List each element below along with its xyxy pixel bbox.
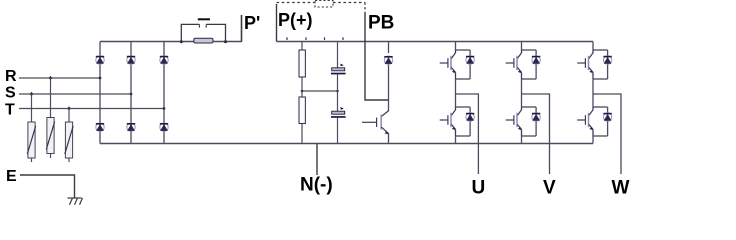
wire dashed link braking resistor to PB xyxy=(333,2,365,4)
wire V output xyxy=(522,94,550,174)
wire varistor tap from R xyxy=(50,76,52,118)
diode D7 (braking) xyxy=(384,56,392,64)
diode D5 lower col2 xyxy=(127,123,135,131)
transistor Q7 braking IGBT xyxy=(362,111,389,135)
wire resistor column xyxy=(301,42,303,144)
varistor Z3 xyxy=(65,122,73,158)
capacitor C1 xyxy=(331,64,346,75)
wire P' lead xyxy=(241,15,243,42)
wire leg1 midpoint vertical xyxy=(455,79,457,107)
node T tap dot xyxy=(68,107,71,110)
wire P(+) lead xyxy=(276,4,278,42)
wire P(+) top bus left section xyxy=(100,41,194,43)
svg-text:T: T xyxy=(5,102,15,119)
svg-text:R: R xyxy=(5,68,17,85)
svg-text:E: E xyxy=(6,168,17,185)
wire chopper column upper xyxy=(388,42,390,112)
wire W output xyxy=(593,94,621,174)
transistor Q2 bottom with diode xyxy=(440,107,475,136)
wire P(+) top bus main section xyxy=(277,41,594,43)
svg-text:U: U xyxy=(472,178,486,199)
transistor Q5 top with diode xyxy=(577,50,612,79)
node bridge col1/R xyxy=(99,77,102,80)
wire bridge column 3 xyxy=(163,42,165,144)
svg-text:PB: PB xyxy=(368,13,394,34)
wire midpoint link xyxy=(302,90,338,92)
node bridge col3/T xyxy=(163,107,166,110)
wire U output xyxy=(456,94,479,174)
node S tap dot xyxy=(30,93,33,96)
wire leg1 collector stub xyxy=(455,42,457,51)
wire R phase line xyxy=(19,77,100,79)
wire varistor tap from S xyxy=(31,92,33,122)
dashes along bus under P(+) box xyxy=(287,37,343,40)
node R tap dot xyxy=(49,77,52,80)
wire contactor right post xyxy=(206,24,225,42)
diode D6 lower col3 xyxy=(160,123,168,131)
svg-text:W: W xyxy=(612,178,630,199)
wire dashed link P(+) to braking resistor xyxy=(277,2,316,4)
svg-text:S: S xyxy=(5,85,16,102)
node midpoint left xyxy=(301,90,304,93)
resistor R0 (precharge) xyxy=(194,38,213,43)
diode D1 upper col1 xyxy=(96,56,104,64)
wire contactor left post xyxy=(181,24,199,42)
wire leg2 emitter stub xyxy=(521,136,523,144)
svg-text:P(+): P(+) xyxy=(278,10,313,30)
wire top bus resistor-to-P' section xyxy=(213,41,242,43)
diode D3 upper col3 xyxy=(160,56,168,64)
node midpoint right xyxy=(336,90,339,93)
wire leg3 collector stub xyxy=(592,42,594,51)
resistor external braking (dashed outline) xyxy=(315,1,333,8)
varistor Z1 xyxy=(27,122,35,158)
contact moving bar xyxy=(198,18,210,20)
wire varistor Z3 bottom stub xyxy=(68,158,70,162)
resistor R2 (balancing lower) xyxy=(299,97,305,124)
svg-text:P': P' xyxy=(244,13,260,33)
contact gap hooks xyxy=(199,24,206,27)
wire leg2 collector stub xyxy=(521,42,523,51)
svg-text:N(-): N(-) xyxy=(300,175,333,196)
capacitor C2 xyxy=(331,107,346,118)
wire capacitor column xyxy=(337,42,339,144)
diode D4 lower col1 xyxy=(96,123,104,131)
svg-text:V: V xyxy=(543,178,556,199)
diode D2 upper col2 xyxy=(127,56,135,64)
varistor Z2 xyxy=(46,118,54,154)
wire leg3 midpoint vertical xyxy=(592,79,594,107)
wire N(-) lead xyxy=(316,144,318,176)
ground xyxy=(68,198,83,205)
wire varistor Z1 bottom stub xyxy=(31,158,33,162)
wire T phase line xyxy=(19,108,164,110)
wire leg2 midpoint vertical xyxy=(521,79,523,107)
transistor Q1 top with diode xyxy=(440,50,475,79)
transistor Q4 bottom with diode xyxy=(506,107,541,136)
wire chopper emitter to bus xyxy=(388,134,390,144)
wire bridge column 2 xyxy=(130,42,132,144)
transistor Q6 bottom with diode xyxy=(577,107,612,136)
wire S phase line xyxy=(19,93,131,95)
wire bridge column 1 xyxy=(99,42,101,144)
node bridge col2/S xyxy=(130,93,133,96)
wire N(-) bottom bus xyxy=(100,143,593,145)
wire E lead xyxy=(20,175,75,198)
wire leg3 emitter stub xyxy=(592,136,594,144)
node left post junction xyxy=(180,40,183,43)
wire PB lead xyxy=(364,3,366,13)
resistor R1 (balancing upper) xyxy=(299,50,305,77)
transistor Q3 top with diode xyxy=(506,50,541,79)
wire varistor tap from T xyxy=(68,107,70,123)
node right post junction xyxy=(224,40,227,43)
wire leg1 emitter stub xyxy=(455,136,457,144)
wire varistor Z2 bottom stub xyxy=(50,154,52,159)
